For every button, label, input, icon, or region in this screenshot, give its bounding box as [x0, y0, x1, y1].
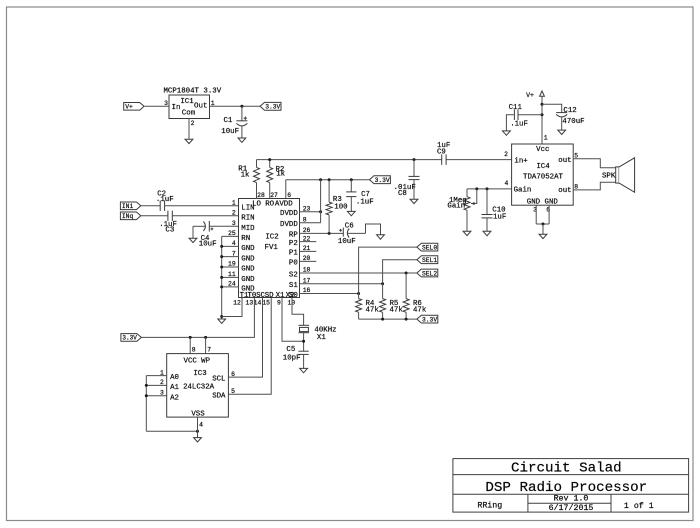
svg-text:FV1: FV1 — [265, 244, 279, 252]
svg-text:C1: C1 — [224, 117, 233, 125]
svg-text:WP: WP — [201, 358, 210, 366]
svg-text:6: 6 — [287, 192, 291, 199]
svg-text:12: 12 — [233, 299, 241, 306]
svg-text:GND: GND — [241, 245, 255, 253]
svg-text:GND: GND — [241, 266, 255, 274]
svg-text:RRing: RRing — [477, 500, 502, 510]
svg-text:7: 7 — [207, 347, 211, 354]
svg-text:SEL2: SEL2 — [422, 270, 437, 277]
svg-text:1 of 1: 1 of 1 — [624, 501, 654, 511]
svg-text:SEL1: SEL1 — [422, 257, 437, 264]
svg-text:LIN: LIN — [241, 205, 254, 213]
svg-text:Com: Com — [182, 110, 196, 118]
svg-text:Rev 1.0: Rev 1.0 — [554, 495, 589, 504]
svg-text:INq: INq — [122, 213, 134, 220]
svg-text:SCL: SCL — [212, 376, 225, 384]
svg-text:3: 3 — [232, 220, 236, 227]
svg-text:RO: RO — [265, 200, 274, 208]
svg-text:2: 2 — [191, 120, 195, 127]
svg-text:DVDD: DVDD — [280, 221, 298, 229]
svg-text:P1: P1 — [289, 250, 298, 258]
svg-text:6: 6 — [546, 206, 550, 213]
svg-text:1uF: 1uF — [493, 214, 506, 222]
svg-text:Gain: Gain — [447, 203, 465, 211]
svg-text:SPK: SPK — [602, 173, 616, 181]
svg-text:out: out — [558, 187, 571, 195]
svg-text:5: 5 — [231, 388, 235, 395]
svg-text:Out: Out — [194, 103, 208, 111]
svg-text:9: 9 — [277, 299, 281, 306]
svg-text:V+: V+ — [526, 92, 534, 99]
svg-text:A0: A0 — [170, 374, 179, 382]
svg-text:10: 10 — [287, 299, 295, 306]
svg-text:IC3: IC3 — [193, 370, 206, 378]
svg-text:10uF: 10uF — [199, 240, 217, 248]
svg-text:C8: C8 — [398, 190, 407, 198]
svg-text:3.3V: 3.3V — [375, 177, 390, 184]
svg-text:24LC32A: 24LC32A — [183, 383, 215, 391]
svg-text:RN: RN — [241, 235, 250, 243]
svg-text:3.3V: 3.3V — [422, 316, 437, 323]
svg-text:10uF: 10uF — [338, 238, 356, 246]
svg-text:8: 8 — [574, 183, 578, 190]
svg-text:.1uF: .1uF — [356, 198, 374, 206]
svg-text:VCC: VCC — [184, 358, 198, 366]
svg-text:in+: in+ — [514, 158, 528, 166]
svg-text:Vcc: Vcc — [536, 146, 549, 154]
svg-text:VSS: VSS — [191, 410, 205, 418]
svg-text:3.3V: 3.3V — [122, 335, 137, 342]
svg-text:P0: P0 — [289, 260, 298, 268]
svg-text:Gain: Gain — [514, 187, 532, 195]
svg-text:2: 2 — [504, 151, 508, 158]
svg-text:10uF: 10uF — [221, 128, 239, 136]
svg-text:IC2: IC2 — [265, 234, 278, 242]
svg-text:4: 4 — [199, 422, 203, 429]
svg-text:GND: GND — [241, 255, 255, 263]
svg-text:.1uF: .1uF — [510, 121, 528, 129]
svg-text:MCP1804T 3.3V: MCP1804T 3.3V — [164, 87, 222, 95]
svg-text:4: 4 — [505, 180, 509, 187]
svg-text:RP: RP — [289, 232, 298, 240]
svg-text:A2: A2 — [170, 394, 179, 402]
svg-text:MID: MID — [241, 225, 255, 233]
svg-text:.1uF: .1uF — [156, 196, 174, 204]
svg-text:GND: GND — [241, 276, 255, 284]
svg-text:C9: C9 — [437, 149, 446, 157]
svg-text:1: 1 — [232, 200, 236, 207]
svg-text:SDA: SDA — [212, 393, 226, 401]
svg-text:DVDD: DVDD — [280, 210, 298, 218]
svg-text:C11: C11 — [509, 104, 523, 112]
svg-text:out: out — [558, 157, 571, 165]
svg-text:27: 27 — [270, 192, 278, 199]
svg-text:V+: V+ — [125, 104, 133, 111]
svg-text:SEL0: SEL0 — [422, 244, 437, 251]
svg-text:6/17/2015: 6/17/2015 — [549, 503, 594, 513]
svg-text:C3: C3 — [165, 227, 174, 235]
svg-text:RIN: RIN — [241, 215, 254, 223]
svg-text:GND GND: GND GND — [527, 198, 559, 206]
svg-text:C5: C5 — [286, 346, 295, 354]
svg-text:47k: 47k — [390, 306, 404, 314]
svg-text:3: 3 — [164, 100, 168, 107]
svg-text:470uF: 470uF — [562, 118, 584, 126]
svg-text:X1: X1 — [317, 334, 326, 342]
svg-text:IC1: IC1 — [180, 98, 194, 106]
svg-text:47k: 47k — [366, 306, 380, 314]
svg-text:13: 13 — [246, 299, 254, 306]
svg-text:47k: 47k — [413, 306, 427, 314]
svg-text:1: 1 — [211, 100, 215, 107]
svg-text:TDA7052AT: TDA7052AT — [523, 174, 563, 182]
svg-text:In: In — [172, 104, 181, 112]
svg-text:INi: INi — [122, 203, 134, 210]
svg-text:28: 28 — [257, 192, 265, 199]
svg-text:15: 15 — [262, 299, 270, 306]
svg-text:1k: 1k — [241, 171, 250, 179]
svg-text:IC4: IC4 — [536, 163, 550, 171]
svg-text:6: 6 — [231, 371, 235, 378]
svg-text:S2: S2 — [289, 271, 298, 279]
svg-text:2: 2 — [232, 210, 236, 217]
svg-text:C6: C6 — [345, 222, 354, 230]
svg-text:C12: C12 — [563, 107, 576, 115]
svg-text:P2: P2 — [289, 240, 298, 248]
svg-text:10pF: 10pF — [283, 355, 301, 363]
svg-text:Circuit Salad: Circuit Salad — [511, 460, 622, 476]
svg-text:3.3V: 3.3V — [265, 104, 280, 111]
svg-text:1k: 1k — [276, 171, 285, 179]
svg-text:8: 8 — [192, 347, 196, 354]
svg-text:100: 100 — [334, 203, 347, 211]
svg-text:A1: A1 — [170, 384, 179, 392]
svg-text:AVDD: AVDD — [275, 200, 293, 208]
svg-text:1: 1 — [544, 134, 548, 141]
svg-text:S1: S1 — [289, 282, 298, 290]
